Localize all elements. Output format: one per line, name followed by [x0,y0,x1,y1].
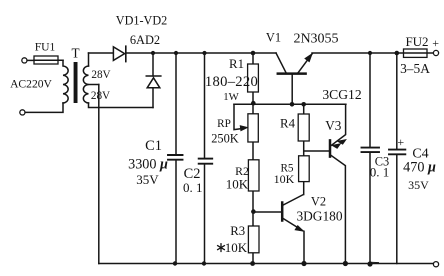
resistor R1 lead [252,53,254,104]
svg-text:VD1-VD2: VD1-VD2 [116,13,167,27]
potentiometer RP leads [252,104,254,160]
svg-text:6AD2: 6AD2 [130,33,160,47]
resistor R2 lead [252,160,254,226]
svg-text:10K: 10K [226,176,249,191]
wire top bus right [312,52,433,54]
node top bus VD2 [151,51,155,55]
svg-text:250K: 250K [211,132,239,146]
svg-text:R1: R1 [229,57,244,71]
svg-text:V2: V2 [311,195,326,209]
terminal input bottom [20,110,25,115]
svg-text:V3: V3 [325,118,342,133]
wire top terminal to fuse [27,59,34,61]
resistor R4 lead [303,104,305,156]
svg-text:+: + [397,135,404,149]
node bus2 R4 [301,102,306,107]
svg-text:0. 1: 0. 1 [370,165,390,180]
transistor V3 [304,104,346,263]
svg-text:FU2: FU2 [405,34,428,49]
transistor V1 [276,53,312,104]
node top bus C2 [202,51,206,55]
resistor R1 [248,64,259,92]
svg-text:0. 1: 0. 1 [183,180,203,195]
wire top bus to V1 [127,52,276,54]
wire center tap riser [98,85,100,264]
svg-text:10K: 10K [274,172,295,186]
fuse FU1 [34,56,63,64]
node bus2 R1 [251,101,256,106]
svg-text:RP: RP [217,118,231,130]
node rail C1 [173,261,177,265]
node top bus R1 [251,51,256,56]
svg-text:3300 μ: 3300 μ [128,157,168,173]
svg-text:35V: 35V [408,178,429,192]
svg-text:10K: 10K [225,240,248,255]
node rail V2 [301,261,306,266]
wire secondary bottom lead [89,103,154,108]
node R2 R3 V2 [251,209,256,214]
terminal input top [22,58,27,63]
wire secondary top lead [88,53,90,66]
transformer T primary winding [63,60,68,103]
wire bottom rail [99,263,433,265]
capacitor C4 [389,53,405,264]
capacitor C1 [168,53,183,264]
node rail V3 [343,261,348,266]
resistor R2 [248,160,259,191]
svg-text:AC220V: AC220V [10,78,52,91]
svg-text:3–5A: 3–5A [400,61,430,76]
svg-text:+: + [432,36,439,50]
svg-text:470 μ: 470 μ [403,160,436,176]
capacitor C3 [362,53,380,264]
svg-text:V1: V1 [266,31,281,45]
svg-text:180–220: 180–220 [205,74,258,90]
svg-text:C1: C1 [145,138,162,154]
terminal output plus [433,50,438,55]
svg-text:2N3055: 2N3055 [293,32,338,47]
diode VD1 [113,46,125,61]
svg-text:FU1: FU1 [35,41,56,54]
node top bus C4 [395,51,400,56]
svg-text:R3: R3 [230,224,245,238]
label star 10K R3 [217,240,248,255]
wire secondary center tap [89,84,99,86]
svg-text:28V: 28V [91,90,110,102]
wire top bus left [89,52,114,54]
node bus2 V1 base [290,102,295,107]
wire bottom terminal to primary [25,103,63,112]
transformer T secondary winding [83,66,88,103]
svg-text:1W: 1W [223,91,239,103]
resistor R5 [299,156,310,195]
potentiometer RP wiper arrow [234,104,248,131]
node top bus C1 [174,51,178,55]
fuse FU2 [404,49,428,57]
node rail R3 [250,261,255,266]
node rail C3 [367,261,378,266]
terminal output minus [433,262,438,267]
svg-text:35V: 35V [136,172,159,187]
potentiometer RP [248,114,258,142]
resistor R4 [298,114,309,141]
svg-text:3CG12: 3CG12 [322,87,361,102]
node top bus C3 [368,51,372,55]
svg-text:3DG180: 3DG180 [296,208,342,223]
diode VD2 [146,53,161,108]
resistor R3 [248,226,259,264]
svg-text:28V: 28V [91,69,110,81]
svg-text:T: T [71,46,79,61]
capacitor C2 [199,53,213,264]
node rail C2 [202,261,206,265]
svg-text:R4: R4 [280,117,296,131]
transistor V2 [254,195,304,264]
transformer core [74,62,78,103]
wire bus2 [234,103,346,105]
